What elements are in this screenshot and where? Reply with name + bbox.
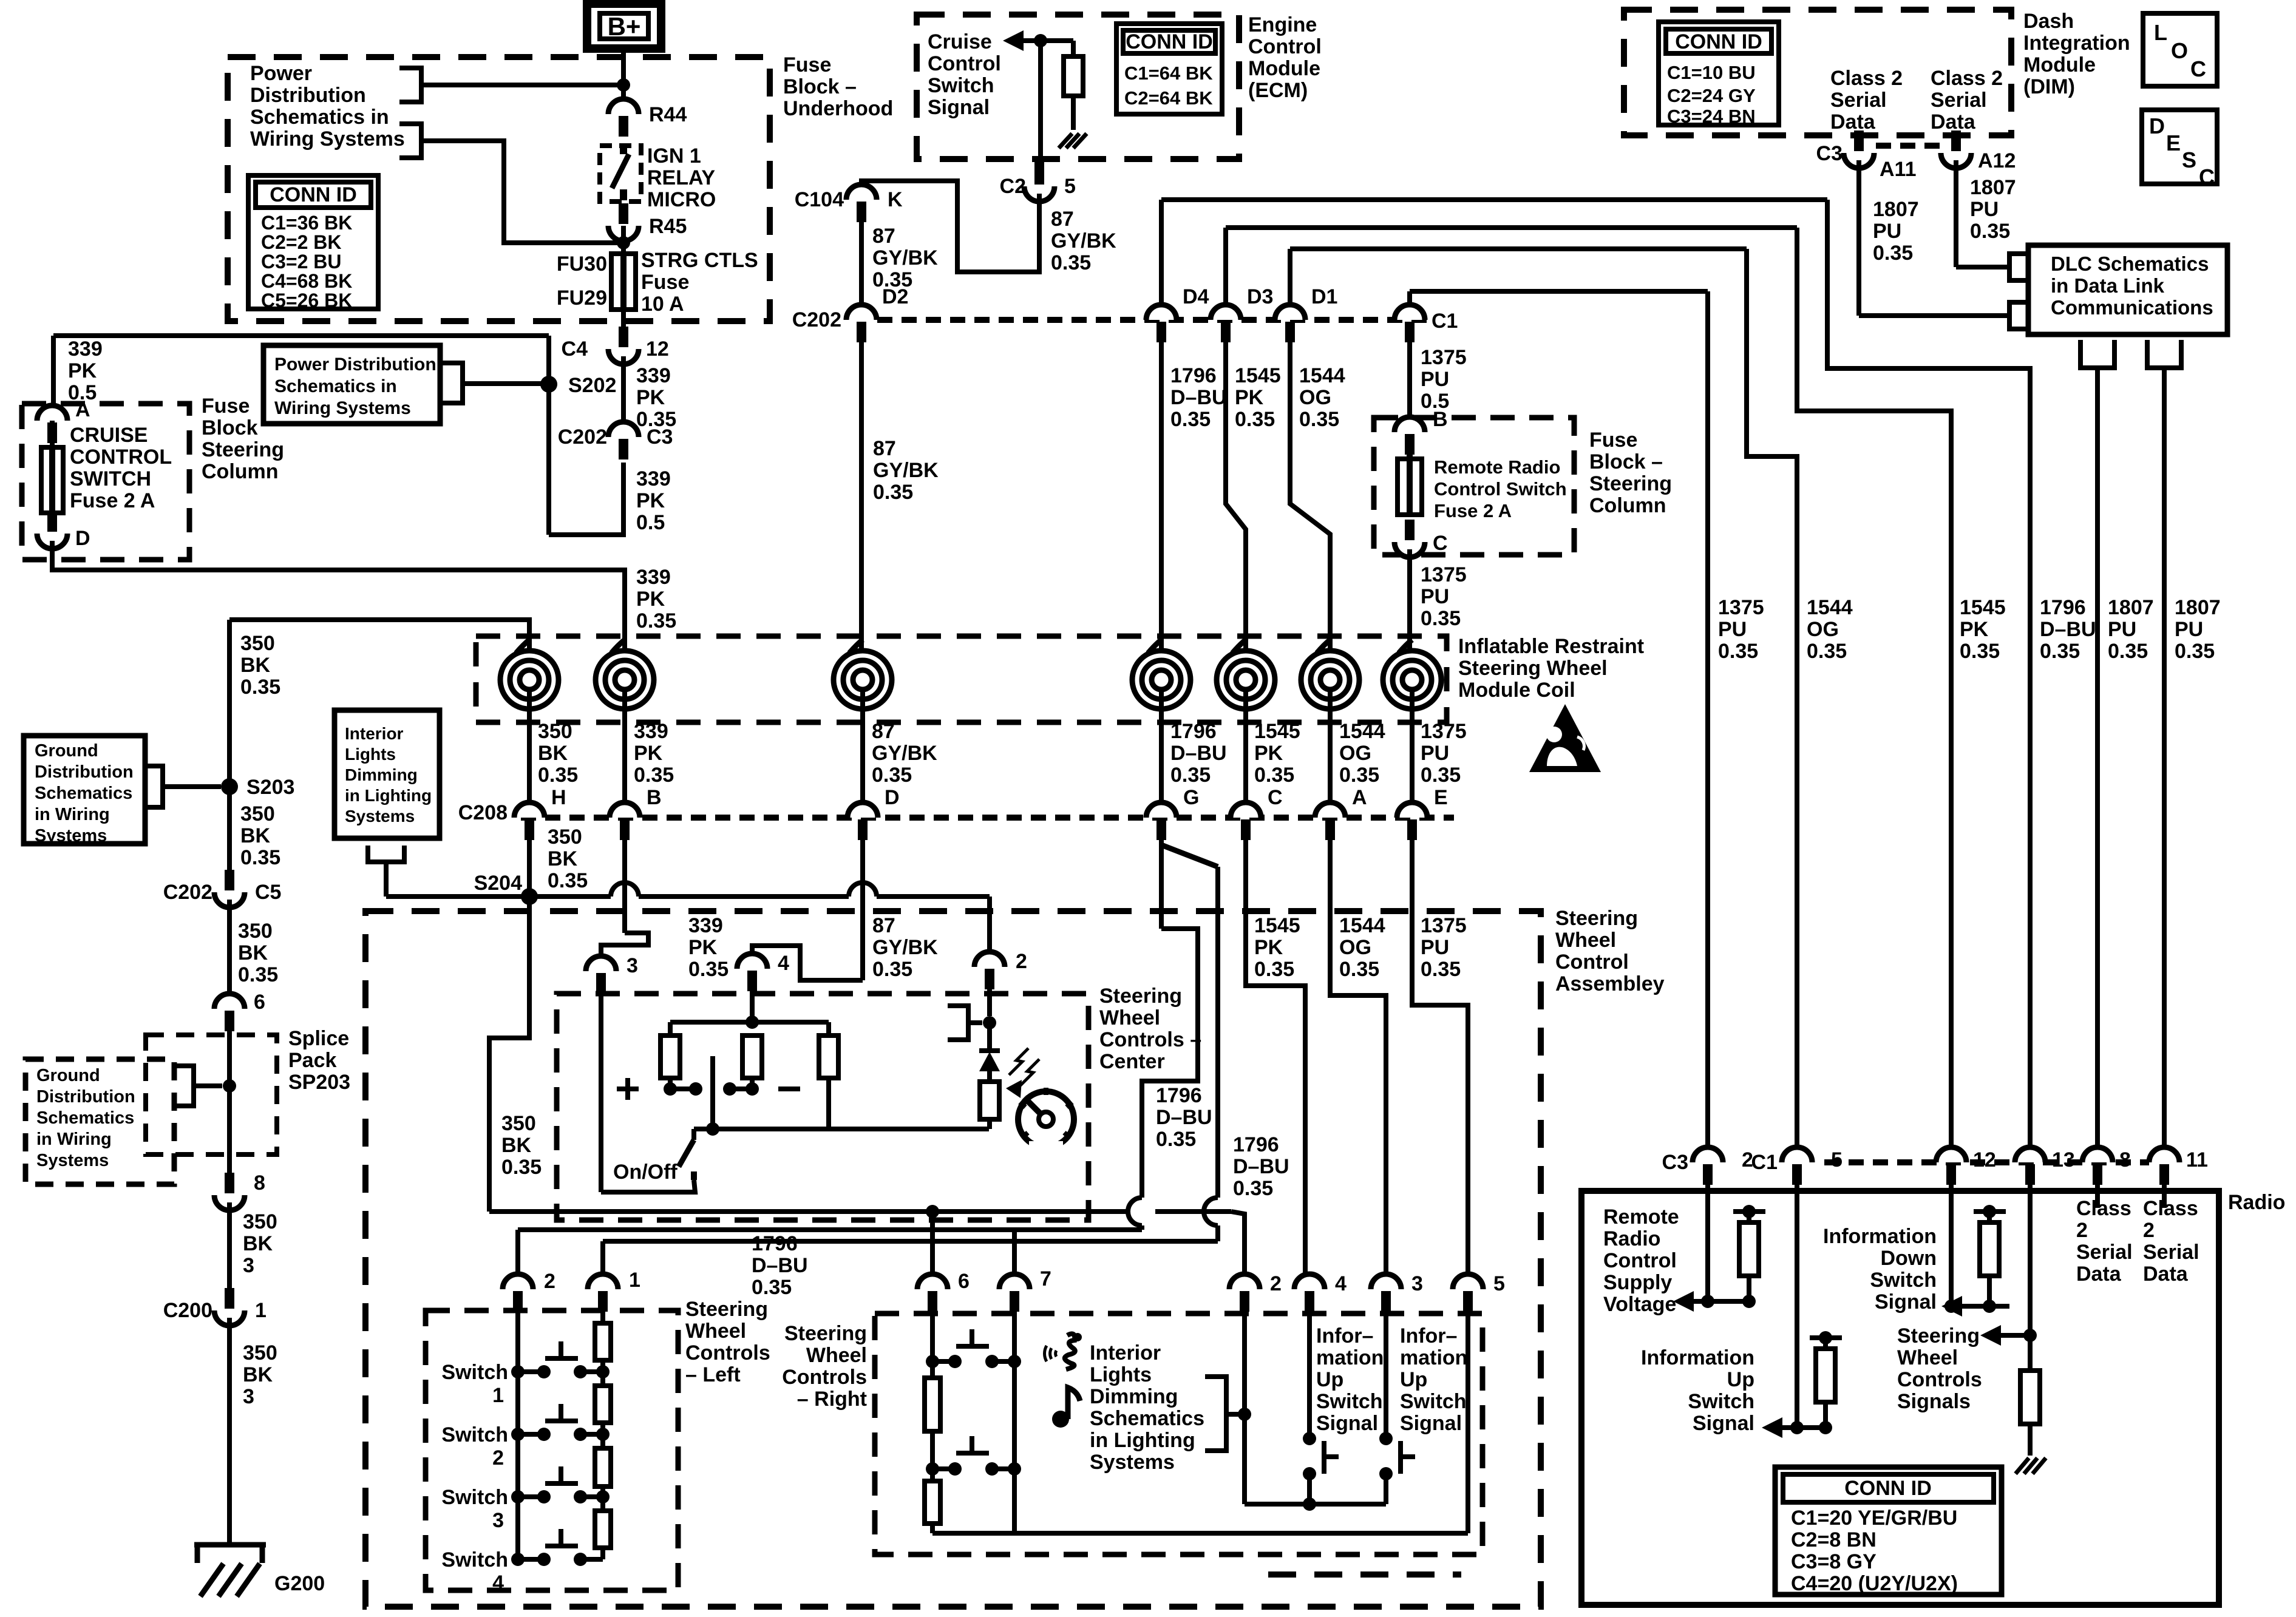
svg-text:Wheel: Wheel xyxy=(806,1344,867,1367)
svg-text:1796: 1796 xyxy=(1170,364,1217,387)
svg-text:0.35: 0.35 xyxy=(1170,408,1211,431)
svg-text:PK: PK xyxy=(1254,742,1283,765)
svg-text:STRG CTLS: STRG CTLS xyxy=(641,249,758,272)
svg-text:R44: R44 xyxy=(649,103,687,126)
svg-text:Controls –: Controls – xyxy=(1099,1028,1201,1051)
svg-text:OG: OG xyxy=(1299,386,1331,409)
svg-text:C202: C202 xyxy=(792,308,841,331)
svg-text:3: 3 xyxy=(627,954,638,977)
svg-text:Engine: Engine xyxy=(1248,13,1317,36)
svg-text:C104: C104 xyxy=(795,188,844,211)
svg-text:Up: Up xyxy=(1727,1368,1754,1391)
svg-text:MICRO: MICRO xyxy=(647,188,716,211)
svg-text:Steering: Steering xyxy=(202,438,284,461)
svg-text:RELAY: RELAY xyxy=(647,166,715,189)
svg-text:C5: C5 xyxy=(255,881,281,904)
svg-text:C202: C202 xyxy=(163,881,212,904)
svg-text:Signal: Signal xyxy=(928,96,990,119)
svg-text:PU: PU xyxy=(1421,742,1449,765)
svg-text:Switch: Switch xyxy=(928,74,994,97)
svg-text:1796: 1796 xyxy=(2040,596,2086,619)
svg-text:PK: PK xyxy=(688,936,718,959)
svg-text:87: 87 xyxy=(872,225,895,248)
svg-text:0.5: 0.5 xyxy=(636,511,665,534)
svg-text:339: 339 xyxy=(68,337,103,361)
svg-text:C2=24 GY: C2=24 GY xyxy=(1667,85,1756,106)
svg-text:0.35: 0.35 xyxy=(1051,251,1091,274)
svg-text:C4=20 (U2Y/U2X): C4=20 (U2Y/U2X) xyxy=(1791,1572,1958,1595)
svg-text:1807: 1807 xyxy=(1970,176,2016,199)
svg-text:Communications: Communications xyxy=(2051,296,2213,319)
svg-text:Control: Control xyxy=(928,52,1001,75)
svg-text:Fuse 2 A: Fuse 2 A xyxy=(70,489,155,512)
svg-text:(DIM): (DIM) xyxy=(2023,75,2075,98)
svg-text:Up: Up xyxy=(1400,1368,1427,1391)
svg-text:– Right: – Right xyxy=(797,1388,867,1411)
svg-text:Column: Column xyxy=(1589,494,1666,517)
svg-text:0.35: 0.35 xyxy=(872,764,912,787)
svg-text:0.35: 0.35 xyxy=(240,846,280,869)
svg-text:CONN ID: CONN ID xyxy=(1844,1477,1932,1500)
svg-text:GY/BK: GY/BK xyxy=(872,742,937,765)
svg-text:Down: Down xyxy=(1880,1247,1937,1270)
svg-text:87: 87 xyxy=(1051,208,1074,231)
svg-text:0.35: 0.35 xyxy=(873,481,913,504)
svg-text:339: 339 xyxy=(688,914,723,937)
svg-text:1544: 1544 xyxy=(1807,596,1853,619)
svg-text:Steering: Steering xyxy=(1555,907,1638,930)
svg-text:1: 1 xyxy=(255,1299,267,1322)
svg-text:CONTROL: CONTROL xyxy=(70,446,172,469)
svg-text:C1: C1 xyxy=(1751,1151,1778,1174)
svg-text:S202: S202 xyxy=(568,374,616,397)
svg-text:0.35: 0.35 xyxy=(752,1276,792,1299)
svg-text:Dimming: Dimming xyxy=(345,765,418,784)
svg-text:Up: Up xyxy=(1316,1368,1343,1391)
svg-text:7: 7 xyxy=(1040,1267,1051,1290)
svg-text:Distribution: Distribution xyxy=(250,84,366,107)
svg-text:3: 3 xyxy=(243,1254,254,1277)
svg-text:A11: A11 xyxy=(1880,158,1917,181)
svg-text:E: E xyxy=(2166,131,2181,155)
svg-text:Steering: Steering xyxy=(1897,1324,1980,1347)
svg-text:1544: 1544 xyxy=(1339,914,1385,937)
svg-text:Dash: Dash xyxy=(2023,10,2074,33)
svg-text:FU29: FU29 xyxy=(557,286,607,310)
svg-text:Radio: Radio xyxy=(2228,1191,2285,1214)
svg-text:0.35: 0.35 xyxy=(1421,764,1461,787)
svg-text:Integration: Integration xyxy=(2023,32,2130,55)
svg-text:Control: Control xyxy=(1555,951,1629,974)
svg-text:GY/BK: GY/BK xyxy=(872,246,938,269)
svg-text:11: 11 xyxy=(2186,1148,2208,1171)
svg-text:Controls: Controls xyxy=(685,1341,770,1364)
svg-text:1545: 1545 xyxy=(1254,914,1300,937)
svg-text:C2=2 BK: C2=2 BK xyxy=(261,231,342,253)
svg-text:BK: BK xyxy=(243,1363,273,1386)
svg-text:2: 2 xyxy=(2076,1219,2088,1242)
svg-text:Schematics: Schematics xyxy=(35,784,132,803)
svg-text:PK: PK xyxy=(636,386,665,409)
svg-text:C1: C1 xyxy=(1432,310,1458,333)
svg-text:PK: PK xyxy=(636,489,665,512)
svg-text:C5=26 BK: C5=26 BK xyxy=(261,290,352,311)
svg-text:IGN 1: IGN 1 xyxy=(647,144,701,168)
svg-text:Switch: Switch xyxy=(441,1423,508,1446)
svg-text:Column: Column xyxy=(202,460,279,483)
svg-text:Block –: Block – xyxy=(783,75,857,98)
svg-text:Switch: Switch xyxy=(1316,1390,1383,1413)
svg-text:PK: PK xyxy=(1235,386,1264,409)
svg-text:339: 339 xyxy=(634,720,668,743)
svg-text:350: 350 xyxy=(240,802,275,825)
svg-text:87: 87 xyxy=(872,914,895,937)
svg-text:3: 3 xyxy=(243,1385,254,1408)
svg-text:B: B xyxy=(1433,408,1448,431)
svg-text:BK: BK xyxy=(238,941,268,964)
svg-text:1796: 1796 xyxy=(1156,1084,1202,1107)
svg-text:3: 3 xyxy=(492,1509,504,1532)
svg-text:Steering: Steering xyxy=(685,1298,768,1321)
svg-text:BK: BK xyxy=(240,824,271,847)
svg-text:Systems: Systems xyxy=(35,826,107,846)
svg-text:SP203: SP203 xyxy=(288,1071,350,1094)
svg-text:10 A: 10 A xyxy=(641,293,684,316)
svg-text:C1=10 BU: C1=10 BU xyxy=(1667,62,1756,83)
svg-text:PU: PU xyxy=(1421,585,1449,608)
svg-text:1796: 1796 xyxy=(752,1232,798,1255)
svg-text:Assembley: Assembley xyxy=(1555,972,1665,995)
svg-text:2: 2 xyxy=(544,1270,555,1293)
svg-text:Class: Class xyxy=(2143,1197,2198,1220)
svg-text:0.35: 0.35 xyxy=(1299,408,1339,431)
svg-text:Serial: Serial xyxy=(1830,89,1887,112)
svg-text:D–BU: D–BU xyxy=(1170,742,1227,765)
svg-text:PK: PK xyxy=(1960,618,1989,641)
svg-text:Class: Class xyxy=(2076,1197,2131,1220)
svg-text:0.35: 0.35 xyxy=(1170,764,1211,787)
svg-text:– Left: – Left xyxy=(685,1363,741,1386)
svg-text:C: C xyxy=(1268,786,1283,809)
svg-text:0.35: 0.35 xyxy=(240,676,280,699)
svg-text:Schematics in: Schematics in xyxy=(274,376,397,396)
svg-text:Wiring Systems: Wiring Systems xyxy=(274,398,411,418)
svg-text:D: D xyxy=(75,527,90,550)
svg-text:PU: PU xyxy=(2108,618,2136,641)
svg-text:Steering: Steering xyxy=(1589,472,1672,495)
svg-text:339: 339 xyxy=(636,566,671,589)
svg-text:A: A xyxy=(1352,786,1367,809)
svg-text:BK: BK xyxy=(240,654,271,677)
svg-text:Systems: Systems xyxy=(36,1151,109,1170)
svg-text:Switch: Switch xyxy=(1688,1390,1754,1413)
svg-text:A12: A12 xyxy=(1978,149,2016,172)
svg-text:in Lighting: in Lighting xyxy=(1090,1429,1195,1452)
svg-text:B+: B+ xyxy=(608,12,641,41)
svg-text:1375: 1375 xyxy=(1421,563,1467,586)
svg-text:PK: PK xyxy=(636,588,665,611)
svg-text:1807: 1807 xyxy=(1873,198,1919,221)
svg-text:PK: PK xyxy=(68,359,97,382)
svg-text:Wheel: Wheel xyxy=(685,1320,746,1343)
svg-text:2: 2 xyxy=(2143,1219,2155,1242)
svg-text:350: 350 xyxy=(243,1341,277,1364)
svg-text:PK: PK xyxy=(634,742,663,765)
svg-text:Supply: Supply xyxy=(1603,1271,1672,1294)
svg-text:C2=8 BN: C2=8 BN xyxy=(1791,1528,1877,1551)
svg-text:1544: 1544 xyxy=(1339,720,1385,743)
svg-text:E: E xyxy=(1434,786,1448,809)
svg-text:D1: D1 xyxy=(1311,285,1337,308)
svg-text:Radio: Radio xyxy=(1603,1227,1660,1250)
svg-text:0.35: 0.35 xyxy=(1421,607,1461,630)
svg-text:OG: OG xyxy=(1339,936,1371,959)
svg-text:Systems: Systems xyxy=(345,807,415,825)
svg-text:Schematics: Schematics xyxy=(36,1108,134,1128)
svg-text:Lights: Lights xyxy=(1090,1363,1152,1386)
svg-text:5: 5 xyxy=(1064,175,1076,198)
svg-text:R45: R45 xyxy=(649,215,687,238)
svg-text:1545: 1545 xyxy=(1960,596,2006,619)
svg-text:C: C xyxy=(2199,164,2215,189)
svg-text:in Wiring: in Wiring xyxy=(36,1130,112,1149)
svg-text:G200: G200 xyxy=(274,1572,325,1595)
svg-text:Wheel: Wheel xyxy=(1897,1346,1958,1369)
svg-text:GY/BK: GY/BK xyxy=(1051,229,1116,253)
svg-text:D–BU: D–BU xyxy=(1156,1106,1212,1129)
svg-text:A: A xyxy=(75,398,90,421)
svg-text:350: 350 xyxy=(238,920,273,943)
svg-text:C3: C3 xyxy=(647,425,673,449)
svg-text:1807: 1807 xyxy=(2175,596,2221,619)
svg-text:OG: OG xyxy=(1807,618,1839,641)
svg-text:350: 350 xyxy=(243,1210,277,1233)
svg-text:Infor–: Infor– xyxy=(1316,1324,1373,1347)
svg-text:Switch: Switch xyxy=(1870,1269,1937,1292)
svg-text:350: 350 xyxy=(240,632,275,655)
svg-text:1: 1 xyxy=(492,1384,504,1407)
svg-text:Fuse: Fuse xyxy=(1589,429,1637,452)
svg-text:4: 4 xyxy=(778,952,789,975)
svg-text:Block –: Block – xyxy=(1589,450,1663,473)
svg-text:Voltage: Voltage xyxy=(1603,1293,1676,1316)
svg-text:0.35: 0.35 xyxy=(1421,958,1461,981)
svg-text:Ground: Ground xyxy=(36,1066,100,1085)
svg-text:12: 12 xyxy=(1973,1148,1996,1171)
svg-text:PU: PU xyxy=(1873,220,1901,243)
svg-text:Switch: Switch xyxy=(441,1361,508,1384)
svg-text:mation: mation xyxy=(1316,1346,1384,1369)
svg-text:13: 13 xyxy=(2052,1148,2075,1171)
svg-text:S: S xyxy=(2182,147,2196,172)
svg-text:Cruise: Cruise xyxy=(928,30,992,53)
svg-text:L: L xyxy=(2154,20,2167,45)
svg-text:Fuse: Fuse xyxy=(202,395,250,418)
svg-text:BK: BK xyxy=(548,847,578,870)
svg-text:6: 6 xyxy=(254,991,265,1014)
svg-text:Distribution: Distribution xyxy=(35,762,134,782)
svg-text:0.35: 0.35 xyxy=(1339,958,1379,981)
svg-text:mation: mation xyxy=(1400,1346,1467,1369)
svg-text:Fuse 2 A: Fuse 2 A xyxy=(1434,500,1512,521)
svg-text:SWITCH: SWITCH xyxy=(70,467,151,490)
svg-text:D4: D4 xyxy=(1183,285,1209,308)
svg-text:Inflatable Restraint: Inflatable Restraint xyxy=(1458,635,1644,658)
svg-text:Switch: Switch xyxy=(441,1548,508,1571)
svg-text:B: B xyxy=(647,786,662,809)
svg-text:1375: 1375 xyxy=(1718,596,1764,619)
svg-text:87: 87 xyxy=(873,437,896,460)
svg-text:Signals: Signals xyxy=(1897,1390,1971,1413)
svg-text:Fuse: Fuse xyxy=(783,53,831,76)
svg-text:C4: C4 xyxy=(562,337,588,361)
svg-text:1544: 1544 xyxy=(1299,364,1345,387)
svg-text:8: 8 xyxy=(254,1171,265,1195)
svg-text:12: 12 xyxy=(646,337,669,361)
svg-text:Signal: Signal xyxy=(1400,1412,1462,1435)
svg-text:Control: Control xyxy=(1603,1249,1677,1272)
svg-text:C1=64 BK: C1=64 BK xyxy=(1124,63,1213,84)
svg-text:Infor–: Infor– xyxy=(1400,1324,1457,1347)
svg-text:Interior: Interior xyxy=(345,724,404,743)
svg-text:CONN ID: CONN ID xyxy=(270,183,357,206)
svg-text:0.35: 0.35 xyxy=(1233,1177,1273,1200)
svg-text:On/Off: On/Off xyxy=(613,1161,678,1184)
svg-text:C2=64 BK: C2=64 BK xyxy=(1124,87,1213,109)
svg-text:D–BU: D–BU xyxy=(1170,386,1227,409)
svg-text:C: C xyxy=(2190,56,2206,81)
svg-text:O: O xyxy=(2171,38,2188,63)
svg-text:0.35: 0.35 xyxy=(1254,958,1294,981)
svg-text:D2: D2 xyxy=(882,285,908,308)
svg-text:D–BU: D–BU xyxy=(2040,618,2096,641)
svg-text:1545: 1545 xyxy=(1254,720,1300,743)
svg-text:Controls: Controls xyxy=(782,1366,867,1389)
svg-text:D–BU: D–BU xyxy=(1233,1155,1289,1178)
svg-text:PU: PU xyxy=(1718,618,1747,641)
svg-text:0.35: 0.35 xyxy=(1718,640,1758,663)
svg-text:Information: Information xyxy=(1823,1225,1937,1248)
svg-text:BK: BK xyxy=(538,742,568,765)
svg-text:C3: C3 xyxy=(1816,142,1843,165)
svg-text:4: 4 xyxy=(492,1571,504,1595)
svg-text:5: 5 xyxy=(1493,1272,1505,1295)
svg-text:Dimming: Dimming xyxy=(1090,1385,1178,1408)
svg-text:C3=8 GY: C3=8 GY xyxy=(1791,1550,1877,1573)
svg-text:Module: Module xyxy=(2023,53,2096,76)
svg-text:Power Distribution: Power Distribution xyxy=(274,354,436,375)
svg-text:Lights: Lights xyxy=(345,745,396,764)
svg-text:CONN ID: CONN ID xyxy=(1126,30,1213,53)
svg-text:0.35: 0.35 xyxy=(238,963,278,986)
svg-text:Remote: Remote xyxy=(1603,1205,1679,1229)
svg-text:Signal: Signal xyxy=(1693,1412,1754,1435)
svg-text:1796: 1796 xyxy=(1170,720,1217,743)
svg-text:PU: PU xyxy=(1421,936,1449,959)
svg-text:Interior: Interior xyxy=(1090,1341,1161,1364)
svg-text:Class 2: Class 2 xyxy=(1830,67,1903,90)
svg-text:Control Switch: Control Switch xyxy=(1434,478,1567,500)
svg-text:1375: 1375 xyxy=(1421,720,1467,743)
svg-text:Data: Data xyxy=(2143,1263,2189,1286)
svg-text:Steering: Steering xyxy=(784,1322,867,1345)
svg-text:0.35: 0.35 xyxy=(636,609,676,632)
svg-text:Schematics: Schematics xyxy=(1090,1407,1204,1430)
svg-text:1375: 1375 xyxy=(1421,346,1467,369)
svg-text:0.35: 0.35 xyxy=(634,764,674,787)
svg-text:OG: OG xyxy=(1339,742,1371,765)
svg-text:Splice: Splice xyxy=(288,1027,349,1050)
svg-text:Control: Control xyxy=(1248,35,1322,58)
svg-text:0.35: 0.35 xyxy=(1807,640,1847,663)
svg-text:C1=20 YE/GR/BU: C1=20 YE/GR/BU xyxy=(1791,1507,1957,1530)
svg-text:BK: BK xyxy=(501,1134,532,1157)
svg-text:in Lighting: in Lighting xyxy=(345,786,432,805)
svg-text:Remote Radio: Remote Radio xyxy=(1434,456,1560,478)
svg-text:PU: PU xyxy=(2175,618,2203,641)
svg-text:Controls: Controls xyxy=(1897,1368,1982,1391)
svg-text:S203: S203 xyxy=(246,776,294,799)
svg-text:Center: Center xyxy=(1099,1050,1165,1073)
svg-text:2: 2 xyxy=(1270,1272,1282,1295)
svg-text:Serial: Serial xyxy=(2143,1241,2199,1264)
svg-text:PU: PU xyxy=(1421,368,1449,391)
svg-text:0.35: 0.35 xyxy=(2040,640,2080,663)
svg-text:Steering: Steering xyxy=(1099,985,1182,1008)
svg-text:(ECM): (ECM) xyxy=(1248,79,1308,102)
svg-text:Signal: Signal xyxy=(1316,1412,1378,1435)
svg-text:G: G xyxy=(1183,786,1199,809)
svg-text:0.35: 0.35 xyxy=(2175,640,2215,663)
svg-text:Power: Power xyxy=(250,62,312,85)
svg-text:2: 2 xyxy=(1016,950,1027,973)
svg-text:GY/BK: GY/BK xyxy=(872,936,938,959)
svg-text:GY/BK: GY/BK xyxy=(873,459,939,482)
svg-text:C3=2 BU: C3=2 BU xyxy=(261,251,342,273)
svg-text:C: C xyxy=(1433,532,1448,555)
svg-text:0.35: 0.35 xyxy=(1156,1128,1196,1151)
svg-text:8: 8 xyxy=(2119,1148,2131,1171)
svg-text:in Data Link: in Data Link xyxy=(2051,274,2165,297)
svg-text:0.35: 0.35 xyxy=(538,764,578,787)
svg-text:K: K xyxy=(888,188,903,211)
svg-text:1796: 1796 xyxy=(1233,1133,1279,1156)
svg-text:3: 3 xyxy=(1411,1272,1423,1295)
svg-text:0.35: 0.35 xyxy=(872,958,912,981)
svg-text:5: 5 xyxy=(1831,1148,1843,1171)
svg-text:Data: Data xyxy=(1931,110,1976,134)
svg-text:Underhood: Underhood xyxy=(783,97,893,120)
svg-text:87: 87 xyxy=(872,720,895,743)
svg-text:4: 4 xyxy=(1335,1272,1347,1295)
svg-text:Switch: Switch xyxy=(1400,1390,1467,1413)
svg-text:350: 350 xyxy=(501,1112,536,1135)
svg-text:0.35: 0.35 xyxy=(1339,764,1379,787)
svg-text:Block: Block xyxy=(202,416,258,439)
svg-text:0.35: 0.35 xyxy=(2108,640,2148,663)
svg-text:1807: 1807 xyxy=(2108,596,2154,619)
svg-text:Wheel: Wheel xyxy=(1555,929,1616,952)
svg-text:in Wiring: in Wiring xyxy=(35,805,110,824)
svg-text:0.35: 0.35 xyxy=(688,958,729,981)
svg-text:H: H xyxy=(551,786,566,809)
svg-text:DLC Schematics: DLC Schematics xyxy=(2051,253,2209,275)
svg-text:Distribution: Distribution xyxy=(36,1087,135,1107)
svg-text:C208: C208 xyxy=(458,801,508,824)
svg-text:C200: C200 xyxy=(163,1299,212,1322)
svg-text:Information: Information xyxy=(1641,1346,1754,1369)
svg-text:339: 339 xyxy=(636,364,671,387)
